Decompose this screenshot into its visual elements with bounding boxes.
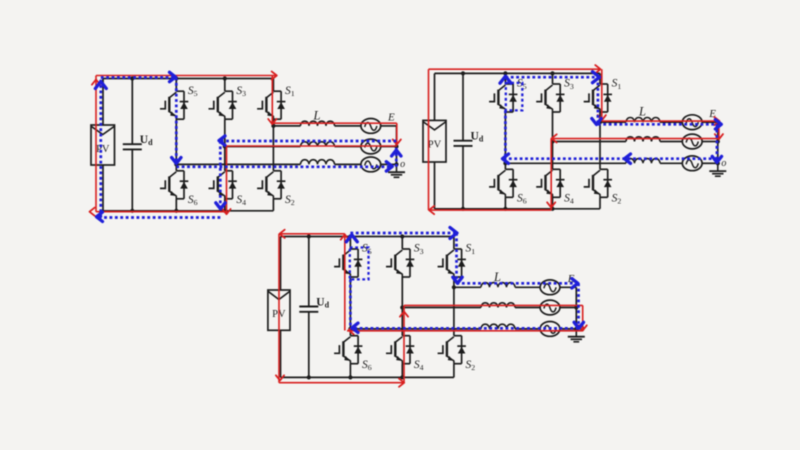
wire: circuit 1 phase A source to neutral column (381, 125, 396, 127)
wire: circuit 2 phase B from leg to inductor (553, 141, 627, 143)
blue current path: circuit 3 loop around S5 (350, 248, 369, 280)
red current path: circuit 1 left side up along PV (95, 76, 97, 212)
svg-text:S6: S6 (517, 193, 527, 206)
blue arrow down at S5 phase node (circuit 1) (172, 158, 181, 164)
node phase A tap (circuit 1) (271, 124, 275, 128)
wire: circuit 1 S3 emitter to phase node (224, 119, 226, 146)
junction: circuit 1 top bus at capacitor (130, 76, 134, 80)
wire: circuit 3 phase B from leg to inductor (402, 307, 481, 309)
wire: circuit 3 leg 3 phase node to S2 collector (453, 287, 455, 335)
red arrow down at S4 bottom (circuit 2) (547, 202, 555, 207)
red current path: circuit 2 right column down (718, 121, 720, 139)
red arrow left at bottom-left (circuit 2) (429, 206, 434, 214)
transistor S6 (circuit 3) (334, 336, 372, 372)
svg-text:Ud: Ud (316, 296, 329, 309)
junction: circuit 1 top bus at leg 1 (174, 76, 178, 80)
wire: circuit 1 leg 1 phase node to S6 collector (175, 164, 177, 170)
ac source phase A (circuit 1) (361, 119, 381, 134)
node E label (circuit 1) (387, 112, 395, 124)
blue current path: circuit 1 left side up (99, 78, 102, 218)
transistor S2 (circuit 1) (257, 171, 295, 207)
junction: circuit 2 top bus at leg 1 (503, 71, 507, 75)
svg-text:o: o (721, 158, 726, 169)
svg-text:S6: S6 (362, 359, 372, 372)
red current path: circuit 1 phase B return (227, 145, 397, 147)
blue arrow left at S5 leg (circuit 2) (503, 154, 509, 163)
blue current path: circuit 1 down S4 leg (219, 141, 222, 209)
transistor S3 (circuit 2) (536, 78, 574, 112)
svg-text:S5: S5 (362, 243, 372, 256)
blue current path: circuit 2 phase A (598, 123, 717, 126)
wire: circuit 2 phase A inductor to source (660, 121, 682, 123)
wire: circuit 3 leg 1 phase node to S6 collector (349, 329, 351, 336)
node o label (circuit 2) (721, 158, 726, 169)
transistor S2 (circuit 3) (438, 336, 476, 372)
wire: circuit 1 phase C inductor to source (335, 163, 361, 165)
node phase A tap (circuit 3) (452, 285, 456, 289)
capacitor Ud (circuit 2) (454, 73, 484, 208)
red current path: circuit 3 up S4 leg (403, 305, 405, 382)
wire: circuit 2 S4 emitter to bottom bus (552, 197, 554, 209)
blue arrow down at o (circuit 2) (712, 156, 721, 162)
wire: circuit 3 left lead from bus to PV (280, 237, 282, 291)
inductor L phase A (circuit 3) (481, 283, 515, 288)
wire: circuit 2 leg 2 collector from top bus (552, 73, 554, 84)
transistor S3 (circuit 3) (386, 243, 424, 277)
wire: circuit 1 phase B from leg to inductor (225, 146, 301, 148)
wire: circuit 2 phase B source to neutral column (703, 141, 718, 143)
wire: circuit 1 phase C from leg to inductor (176, 163, 300, 165)
wire: circuit 1 S4 emitter to bottom bus (224, 199, 226, 211)
junction: circuit 3 bottom bus at leg 2 (400, 375, 404, 379)
wire: circuit 1 phase B source to neutral column (381, 146, 396, 148)
junction: circuit 2 top bus at capacitor (461, 71, 465, 75)
capacitor Ud (circuit 3) (299, 237, 329, 378)
svg-text:Ud: Ud (471, 131, 484, 144)
wire: circuit 2 leg 3 phase node to S2 collector (599, 122, 601, 169)
blue current path: circuit 1 phase C (176, 165, 391, 168)
node o neutral (circuit 1) (394, 162, 398, 166)
blue arrow right at S5 top (circuit 1) (170, 72, 176, 81)
wire: circuit 1 leg 2 phase node to S4 collector (224, 147, 226, 171)
red arrow right at S1 top (circuit 2) (595, 65, 600, 73)
blue current path: circuit 3 phase A (457, 282, 579, 285)
transistor S4 (circuit 1) (209, 171, 247, 207)
inductor L phase B (circuit 3) (481, 303, 515, 308)
red current path: circuit 2 down right of S1 (601, 69, 603, 121)
red arrow left on phase B (circuit 2) (552, 134, 557, 142)
wire: circuit 2 S1 emitter to phase node (599, 112, 601, 122)
wire: circuit 3 phase A source to neutral column (560, 286, 576, 288)
red current path: circuit 2 left side up (428, 69, 430, 210)
wire: circuit 1 PV to bottom bus (102, 165, 104, 211)
wire: circuit 3 phase C from leg to inductor (350, 328, 481, 330)
svg-text:PV: PV (428, 139, 442, 150)
red current path: circuit 3 up left of S5 leg (344, 234, 346, 331)
blue arrow right at S1 top (circuit 3) (450, 228, 457, 239)
wire: circuit 3 phase C source to neutral column (560, 328, 576, 330)
svg-text:Ud: Ud (140, 134, 153, 147)
inductor value label L (circuit 3) (493, 270, 501, 284)
svg-text:S6: S6 (188, 194, 198, 207)
red arrow up at S4 phase node (circuit 3) (400, 312, 408, 317)
node phase B tap (circuit 3) (400, 305, 404, 309)
red arrow up at circuit 1 top-left (92, 80, 100, 85)
wire: circuit 1 phase C source to neutral column (381, 163, 396, 165)
capacitor Ud (circuit 1) (123, 79, 153, 211)
ac source phase C (circuit 1) (361, 157, 381, 172)
ground (circuit 1) (388, 164, 405, 177)
inductor L phase B (circuit 2) (626, 137, 660, 142)
red arrow left on phase C (circuit 3) (349, 326, 354, 334)
inductor L phase A (circuit 1) (301, 121, 335, 126)
solar panel PV (circuit 2) (423, 120, 446, 162)
junction: circuit 2 bottom bus at capacitor (461, 207, 465, 211)
node neutral at phase B (circuit 1) (394, 144, 398, 148)
red current path: circuit 3 left side down (278, 234, 280, 383)
red current path: circuit 1 down S4 leg (226, 146, 228, 215)
wire: circuit 3 S3 emitter to phase node (401, 277, 403, 308)
wire: circuit 3 leg 1 collector from top bus (349, 237, 351, 250)
wire: circuit 3 top DC bus (281, 236, 454, 238)
wire: circuit 2 bottom DC bus (435, 208, 601, 210)
blue arrow right on phase A (circuit 3) (572, 279, 578, 288)
svg-text:S4: S4 (564, 193, 574, 206)
svg-text:S1: S1 (466, 243, 476, 256)
junction: circuit 2 top bus at leg 2 (550, 71, 554, 75)
inductor value label L (circuit 2) (638, 105, 646, 119)
ac source phase C (circuit 2) (682, 156, 702, 171)
wire: circuit 2 phase C from leg to inductor (505, 162, 626, 164)
inductor L phase C (circuit 3) (481, 324, 515, 329)
blue arrow down right column (circuit 3) (574, 322, 583, 328)
node E label (circuit 3) (567, 273, 575, 285)
red current path: circuit 1 down S1 leg (271, 76, 273, 125)
wire: circuit 2 leg 2 phase node to S4 collector (552, 142, 554, 170)
wire: circuit 1 S6 emitter to bottom bus (175, 199, 177, 211)
wire: circuit 3 S2 emitter to bottom bus (453, 364, 455, 378)
node o label (circuit 3) (580, 324, 585, 335)
red current path: circuit 1 bottom return (96, 211, 227, 213)
red current path: circuit 3 right column down (582, 305, 584, 330)
red arrow down at S4 bottom (circuit 1) (222, 209, 230, 214)
blue arrow right at S1 top (circuit 2) (593, 72, 600, 83)
ac source phase C (circuit 3) (540, 322, 560, 337)
svg-text:S1: S1 (285, 85, 295, 98)
node o neutral (circuit 3) (574, 327, 578, 331)
node phase C tap (circuit 1) (174, 162, 178, 166)
svg-text:S5: S5 (188, 85, 198, 98)
wire: circuit 2 S5 emitter to phase node (504, 112, 506, 163)
red arrow right on phase A (circuit 2) (714, 117, 719, 125)
red current path: circuit 3 top bus leftward (279, 233, 345, 235)
wire: circuit 1 phase A from leg to inductor (273, 125, 300, 127)
wire: circuit 1 S1 emitter to phase node (272, 119, 274, 126)
svg-text:S4: S4 (236, 194, 246, 207)
wire: circuit 3 phase B source to neutral column (560, 307, 576, 309)
red current path: circuit 1 phase A (272, 122, 397, 124)
wire: circuit 1 bottom DC bus (103, 210, 273, 212)
wire: circuit 2 leg 1 collector from top bus (504, 73, 506, 84)
wire: circuit 3 bottom DC bus (281, 376, 454, 378)
svg-text:PV: PV (96, 144, 110, 155)
node phase A tap (circuit 2) (598, 120, 602, 124)
inductor L phase C (circuit 2) (626, 159, 660, 164)
wire: circuit 2 phase B inductor to source (660, 141, 682, 143)
blue arrow left on phase C (circuit 3) (352, 323, 358, 332)
junction: circuit 3 top bus at leg 1 (348, 234, 352, 238)
blue current path: circuit 2 S5 leg down (504, 110, 507, 158)
inductor L phase B (circuit 1) (301, 142, 335, 147)
red arrow left at top-left (circuit 3) (280, 230, 285, 238)
blue current path: circuit 2 right column down (716, 124, 719, 162)
wire: circuit 3 S4 emitter to bottom bus (401, 364, 403, 378)
node phase C tap (circuit 2) (503, 161, 507, 165)
blue current path: circuit 2 loop around S5 diode (506, 83, 523, 111)
svg-text:S2: S2 (285, 194, 295, 207)
junction: circuit 2 bottom bus at leg 1 (503, 207, 507, 211)
node phase C tap (circuit 3) (348, 327, 352, 331)
blue arrow up at S5 top (circuit 3) (346, 235, 357, 242)
wire: circuit 1 phase B inductor to source (335, 146, 361, 148)
inductor L phase C (circuit 1) (301, 160, 335, 165)
red current path: circuit 1 right column down (396, 123, 398, 145)
blue current path: circuit 1 top bus (101, 76, 174, 79)
blue current path: circuit 3 S5 leg down (349, 279, 352, 328)
transistor S2 (circuit 2) (584, 169, 622, 205)
svg-text:S2: S2 (612, 193, 622, 206)
blue arrow right on phase A (circuit 2) (715, 120, 721, 129)
blue arrow right on phase C (circuit 1) (386, 162, 392, 171)
svg-text:S1: S1 (612, 78, 622, 91)
red current path: circuit 2 bottom return (429, 209, 552, 211)
wire: circuit 1 top DC bus (103, 78, 273, 80)
wire: circuit 1 leg 2 collector from top bus (224, 79, 226, 92)
junction: circuit 2 bottom bus at leg 2 (550, 207, 554, 211)
transistor S5 (circuit 3) (334, 243, 372, 277)
svg-text:S2: S2 (466, 359, 476, 372)
inductor value label L (circuit 1) (313, 108, 321, 122)
wire: circuit 3 leg 2 phase node to S4 collector (401, 308, 403, 336)
ac source phase B (circuit 1) (361, 139, 381, 154)
wire: circuit 2 leg 1 phase node to S6 collector (504, 163, 506, 169)
red arrow left at bottom-left (circuit 1) (90, 208, 95, 216)
blue current path: circuit 2 down left of S1 (597, 77, 600, 123)
node phase B tap (circuit 1) (223, 144, 227, 148)
svg-text:S4: S4 (414, 359, 424, 372)
red arrow down at neutral node (circuit 1) (393, 139, 401, 144)
ac source phase B (circuit 3) (540, 300, 560, 315)
red current path: circuit 2 top bus (429, 68, 601, 70)
wire: circuit 2 S2 emitter to bottom bus (599, 197, 601, 209)
junction: circuit 3 top bus at leg 2 (400, 234, 404, 238)
svg-text:S3: S3 (236, 85, 246, 98)
wire: circuit 3 PV to bottom bus (280, 330, 282, 377)
transistor S6 (circuit 2) (489, 169, 527, 205)
wire: circuit 2 S6 emitter to bottom bus (504, 197, 506, 209)
wire: circuit 2 phase A source to neutral column (703, 121, 718, 123)
blue current path: circuit 2 top bus (505, 76, 598, 79)
red arrow up at S5 top (circuit 3) (341, 235, 349, 240)
ground (circuit 2) (709, 163, 726, 176)
transistor S3 (circuit 1) (209, 85, 247, 119)
junction: circuit 3 bottom bus at capacitor (307, 375, 311, 379)
blue current path: circuit 1 neutral up (395, 147, 398, 167)
svg-text:L: L (638, 105, 646, 119)
blue arrow left on phase B (circuit 1) (219, 136, 225, 145)
svg-text:S3: S3 (564, 78, 574, 91)
solar panel PV (circuit 1) (91, 125, 115, 165)
red current path: circuit 3 phase B (404, 304, 583, 306)
wire: circuit 3 S1 emitter to phase node (453, 277, 455, 287)
wire: circuit 1 left lead from bus to PV (102, 79, 104, 126)
wire: circuit 3 leg 2 collector from top bus (401, 237, 403, 250)
wire: circuit 1 leg 3 phase node to S2 collector (272, 126, 274, 171)
junction: circuit 1 bottom bus at leg 1 (174, 209, 178, 213)
wire: circuit 3 phase C inductor to source (515, 328, 540, 330)
wire: circuit 3 neutral column (575, 287, 577, 330)
wire: circuit 2 PV to bottom bus (434, 162, 436, 209)
blue current path: circuit 2 phase C return (505, 157, 717, 160)
red current path: circuit 1 top bus (96, 75, 277, 77)
red arrow down at neutral (circuit 2) (715, 134, 723, 139)
red arrow down on S1 leg (circuit 1) (268, 119, 276, 124)
transistor S1 (circuit 3) (438, 243, 476, 277)
node o neutral (circuit 2) (716, 161, 720, 165)
blue arrow left on phase C (circuit 2) (625, 154, 631, 163)
wire: circuit 3 S6 emitter to bottom bus (349, 364, 351, 378)
inductor L phase A (circuit 2) (626, 117, 660, 122)
wire: circuit 1 phase A inductor to source (335, 125, 361, 127)
wire: circuit 1 S5 emitter to phase node (175, 119, 177, 164)
ground (circuit 3) (568, 329, 585, 342)
red current path: circuit 3 bottom rightward (279, 382, 404, 384)
red current path: circuit 2 phase B return (551, 138, 719, 140)
blue arrow left at bottom-left (circuit 1) (97, 212, 103, 221)
svg-text:L: L (313, 108, 321, 122)
svg-text:o: o (400, 159, 405, 170)
blue current path: circuit 1 bottom return (97, 216, 220, 219)
transistor S4 (circuit 3) (386, 336, 424, 372)
blue current path: circuit 1 phase B return (220, 140, 396, 143)
node phase B tap (circuit 2) (550, 139, 554, 143)
transistor S6 (circuit 1) (160, 171, 198, 207)
node E label (circuit 2) (708, 108, 716, 120)
transistor S5 (circuit 1) (160, 85, 198, 119)
blue current path: circuit 3 top bus (350, 232, 455, 235)
blue current path: circuit 3 phase C return (350, 327, 578, 330)
wire: circuit 3 leg 3 collector from top bus (453, 237, 455, 250)
ac source phase A (circuit 2) (682, 115, 702, 130)
wire: circuit 2 top DC bus (435, 72, 601, 74)
svg-text:E: E (387, 112, 395, 124)
solar panel PV (circuit 3) (268, 290, 290, 330)
wire: circuit 2 leg 3 collector from top bus (599, 73, 601, 84)
red arrow down on S1 leg (circuit 2) (598, 115, 606, 120)
wire: circuit 2 phase A from leg to inductor (600, 121, 626, 123)
wire: circuit 2 phase C inductor to source (660, 162, 682, 164)
ac source phase B (circuit 2) (682, 134, 702, 149)
node o label (circuit 1) (400, 159, 405, 170)
blue arrow down at phase A node (circuit 3) (453, 277, 462, 283)
node neutral at phase B (circuit 3) (574, 305, 578, 309)
transistor S1 (circuit 1) (257, 85, 295, 119)
red current path: circuit 2 phase A (602, 120, 719, 122)
node neutral at phase B (circuit 2) (716, 139, 720, 143)
transistor S4 (circuit 2) (536, 169, 574, 205)
wire: circuit 1 leg 1 collector from top bus (175, 79, 177, 92)
svg-text:L: L (493, 270, 501, 284)
red arrow right at S1 top (circuit 1) (272, 71, 277, 79)
red current path: circuit 2 down S3 leg (550, 139, 552, 211)
wire: circuit 3 phase A from leg to inductor (454, 286, 481, 288)
wire: circuit 3 phase A inductor to source (515, 286, 540, 288)
red arrow down right column (circuit 3) (579, 325, 587, 330)
transistor S5 (circuit 2) (489, 78, 527, 112)
wire: circuit 1 leg 3 collector from top bus (272, 79, 274, 92)
blue arrow up at neutral (circuit 1) (392, 150, 401, 156)
junction: circuit 1 bottom bus at leg 2 (223, 209, 227, 213)
blue arrow down at S4 bottom (circuit 1) (216, 203, 225, 209)
blue arrow up at S5 top (circuit 2) (500, 76, 511, 83)
svg-text:S3: S3 (414, 243, 424, 256)
blue current path: circuit 3 right column down (577, 283, 580, 328)
junction: circuit 1 bottom bus at capacitor (130, 209, 134, 213)
ac source phase A (circuit 3) (540, 280, 560, 295)
wire: circuit 1 S2 emitter to bottom bus (272, 199, 274, 211)
junction: circuit 3 top bus at capacitor (307, 234, 311, 238)
wire: circuit 2 neutral column (717, 122, 719, 164)
red arrow right on bottom (circuit 3) (399, 379, 404, 387)
junction: circuit 3 bottom bus at leg 1 (348, 375, 352, 379)
wire: circuit 3 S5 emitter to phase node (349, 277, 351, 329)
wire: circuit 2 left lead from bus to PV (434, 73, 436, 120)
blue current path: circuit 1 down S5 leg (175, 78, 178, 164)
blue arrow down on S1 leg (circuit 2) (592, 119, 601, 125)
wire: circuit 1 neutral column (396, 126, 398, 165)
blue current path: circuit 3 down right of S1 (455, 233, 458, 283)
red current path: circuit 3 phase C return (347, 330, 583, 332)
wire: circuit 2 phase C source to neutral column (703, 162, 718, 164)
junction: circuit 1 top bus at leg 2 (223, 76, 227, 80)
wire: circuit 3 phase B inductor to source (515, 307, 540, 309)
wire: circuit 2 S3 emitter to phase node (552, 112, 554, 142)
blue arrow up at circuit 1 top-left (95, 82, 106, 89)
transistor S1 (circuit 2) (584, 78, 622, 112)
red arrow down at bottom-left (circuit 3) (276, 375, 284, 380)
